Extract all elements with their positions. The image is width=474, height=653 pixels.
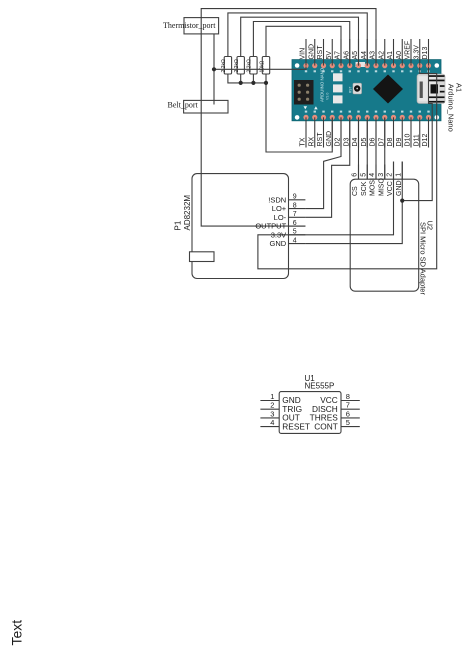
svg-text:D7: D7 — [378, 137, 385, 146]
svg-text:D2: D2 — [335, 137, 342, 146]
silkscreen pad numbers (dashes) — [305, 70, 430, 112]
wire resistor bottom bus — [228, 74, 266, 83]
wire D4 to U2 CS — [358, 118, 360, 179]
svg-text:D5: D5 — [361, 137, 368, 146]
pin stub AD8232M pin9 !SDN — [289, 199, 306, 201]
svg-text:2: 2 — [387, 173, 394, 177]
svg-text:NE555P: NE555P — [305, 382, 335, 391]
pin stub U1 pin6 — [341, 417, 360, 419]
resistor R2 body — [237, 57, 244, 75]
svg-text:10kΩ: 10kΩ — [259, 60, 265, 72]
svg-text:GND: GND — [270, 239, 287, 248]
svg-text:D12: D12 — [422, 134, 429, 147]
wire A5 to resistor R2 top — [241, 17, 359, 65]
svg-text:Arduino_Nano: Arduino_Nano — [447, 84, 456, 132]
wire D6 to U2 MOSI — [375, 118, 377, 179]
svg-text:D9: D9 — [396, 137, 403, 146]
svg-text:VIN: VIN — [300, 48, 307, 60]
svg-text:5V: 5V — [326, 51, 333, 60]
wire D5 to U2 SCK — [366, 118, 368, 179]
pin stub AD8232M pin5 — [289, 234, 306, 236]
svg-text:SCK: SCK — [361, 181, 368, 196]
svg-text:A7: A7 — [335, 51, 342, 60]
wire Arduino GND to resistor bus — [266, 83, 332, 152]
svg-text:1: 1 — [395, 173, 402, 177]
svg-text:VCC: VCC — [387, 181, 394, 196]
svg-text:7: 7 — [293, 211, 297, 218]
svg-text:ARDUINO NANO: ARDUINO NANO — [320, 67, 325, 102]
svg-text:9: 9 — [293, 194, 297, 201]
svg-text:3.3V: 3.3V — [413, 45, 420, 60]
wire U2 VCC to AD8232M 3.3V pin5 — [305, 162, 393, 235]
pin label lines Arduino bottom row — [306, 117, 429, 147]
pin stub U2 GND — [401, 162, 403, 180]
svg-text:5: 5 — [360, 173, 367, 177]
svg-text:RST: RST — [317, 132, 324, 147]
svg-text:D4: D4 — [352, 137, 359, 146]
svg-text:Belt_port: Belt_port — [168, 101, 199, 110]
svg-text:GND: GND — [308, 44, 315, 60]
reset button — [353, 83, 362, 94]
svg-text:2.2kΩ: 2.2kΩ — [234, 59, 240, 72]
pin stub U1 pin5 — [341, 426, 360, 428]
svg-text:Text: Text — [9, 620, 25, 646]
svg-text:CONT: CONT — [314, 421, 338, 431]
svg-text:7: 7 — [346, 401, 350, 410]
svg-text:D13: D13 — [422, 47, 429, 60]
wire R4 bottom lead — [265, 74, 267, 83]
svg-text:2.2kΩ: 2.2kΩ — [247, 59, 253, 72]
pin numbers U2 — [352, 173, 403, 177]
pin stub U1 pin7 — [341, 408, 360, 410]
pin labels U2 — [352, 178, 403, 196]
pin numbers AD8232M — [293, 194, 297, 245]
pin labels U1 right — [310, 395, 339, 431]
svg-text:A4: A4 — [361, 51, 368, 60]
svg-text:MOSI: MOSI — [370, 178, 377, 196]
pin stub U1 pin4 — [260, 426, 279, 428]
resistor R1 body — [224, 57, 231, 75]
svg-text:SPI Micro SD Adapter: SPI Micro SD Adapter — [419, 222, 428, 295]
wire A7 to resistor R4 top — [266, 26, 341, 65]
wire D2 to AD8232M LO+ pin8 — [305, 118, 341, 209]
svg-text:4: 4 — [270, 418, 274, 427]
pin stub U1 pin8 — [341, 400, 360, 402]
pin stub AD8232M pin4 — [289, 243, 306, 245]
svg-text:D10: D10 — [405, 134, 412, 147]
wire A3 to AD8232M OUTPUT pin6 — [201, 9, 376, 226]
svg-text:D8: D8 — [387, 137, 394, 146]
svg-text:P1: P1 — [173, 220, 182, 230]
svg-text:A2: A2 — [378, 51, 385, 60]
pin labels Arduino top row — [300, 41, 430, 60]
pin stub U2 MISO — [384, 165, 386, 180]
SMD parts — [333, 73, 343, 81]
pin stub U2 SCK — [366, 165, 368, 180]
wire D7 to U2 MISO — [384, 118, 386, 179]
svg-text:A6: A6 — [343, 51, 350, 60]
resistor R3 body — [250, 57, 257, 75]
wire R2 bottom lead — [240, 74, 242, 83]
svg-text:RST: RST — [317, 45, 324, 60]
svg-text:LO-: LO- — [274, 213, 287, 222]
junction dot R4 bottom — [264, 81, 268, 85]
resistor R4 body — [262, 57, 269, 75]
pin stub U2 MOSI — [375, 165, 377, 180]
svg-text:3: 3 — [270, 409, 274, 418]
ATmega chip (diamond) — [373, 75, 403, 104]
svg-text:RESET: RESET — [282, 421, 310, 431]
svg-text:3: 3 — [378, 173, 385, 177]
svg-text:VREF: VREF — [405, 41, 412, 60]
svg-text:A3: A3 — [370, 51, 377, 60]
wire U2 GND pin down to AD8232M GND pin4 — [305, 162, 402, 244]
svg-text:A5: A5 — [352, 51, 359, 60]
svg-text:6: 6 — [352, 173, 359, 177]
svg-text:!SDN: !SDN — [268, 195, 286, 204]
wire A4 to resistor R1 top — [228, 13, 367, 66]
wire 3.3V rail: Arduino 3.3V pad to U2/AD8232M — [258, 67, 437, 269]
wire R3 bottom lead — [252, 74, 254, 83]
pin stub U1 pin3 — [260, 417, 279, 419]
svg-text:CS: CS — [352, 186, 359, 196]
pin numbers U1 left — [270, 392, 274, 427]
adapter U2 SPI Micro SD box — [350, 179, 419, 291]
svg-text:3.3V: 3.3V — [271, 230, 286, 239]
svg-text:D3: D3 — [343, 137, 350, 146]
svg-text:1: 1 — [270, 392, 274, 401]
pads top row — [303, 63, 431, 68]
timer U1 NE555P box — [279, 392, 341, 434]
wire Thermistor_port pin to junction — [213, 34, 215, 69]
pin stub AD8232M pin6 — [289, 225, 306, 227]
svg-text:2.2kΩ: 2.2kΩ — [221, 59, 227, 72]
junction dot R2 bottom — [239, 81, 243, 85]
svg-text:4: 4 — [369, 173, 376, 177]
svg-text:A0: A0 — [396, 51, 403, 60]
wire A6 to resistor R3 top — [253, 22, 349, 66]
svg-text:5: 5 — [293, 229, 297, 236]
op Arduino Nano board graphic — [292, 60, 445, 121]
svg-text:RX: RX — [308, 136, 315, 146]
connector Belt_port box — [184, 100, 228, 113]
white triangles markers — [304, 106, 308, 109]
pin labels Arduino bottom row — [300, 131, 430, 147]
svg-text:LO+: LO+ — [272, 204, 287, 213]
mini USB connector — [417, 74, 445, 104]
pin stub AD8232M pin7 — [289, 216, 306, 218]
wire D13 to ground junction — [402, 67, 432, 201]
svg-text:Thermistor_port: Thermistor_port — [163, 21, 216, 30]
wire D3 to AD8232M LO- pin7 — [305, 118, 349, 217]
pin label lines Arduino top row — [306, 39, 429, 66]
svg-text:8: 8 — [293, 202, 297, 209]
Arduino Nano A1 PCB body — [292, 60, 441, 121]
pin stub U1 pin1 — [260, 400, 279, 402]
junction dot thermistor/belt/VIN — [212, 67, 216, 71]
pin labels AD8232M — [255, 195, 286, 248]
svg-text:AD8232M: AD8232M — [183, 195, 192, 231]
svg-text:GND: GND — [396, 180, 403, 196]
ICSP header — [294, 80, 314, 105]
svg-text:6: 6 — [346, 409, 350, 418]
pin labels U1 left — [282, 395, 310, 431]
svg-text:MISO: MISO — [378, 178, 385, 196]
pin stub AD8232M pin8 — [289, 208, 306, 210]
svg-text:TX: TX — [300, 137, 307, 146]
wire VIN to thermistor/belt junction — [214, 67, 306, 70]
pin stub U2 VCC — [393, 162, 395, 180]
svg-text:4: 4 — [293, 237, 297, 244]
svg-text:2: 2 — [270, 401, 274, 410]
op-amp module P1 AD8232M box — [192, 174, 289, 279]
pads bottom row — [303, 115, 431, 120]
svg-text:6: 6 — [293, 220, 297, 227]
svg-text:D11: D11 — [413, 134, 420, 146]
svg-text:5: 5 — [346, 418, 350, 427]
svg-text:GND: GND — [326, 131, 333, 147]
svg-text:A1: A1 — [387, 51, 394, 60]
junction dot R3 bottom — [251, 81, 255, 85]
svg-text:RST: RST — [349, 87, 353, 93]
svg-text:OUTPUT: OUTPUT — [255, 222, 286, 231]
pin stub U2 CS — [358, 165, 360, 180]
pin numbers U1 right — [346, 392, 350, 427]
svg-text:D6: D6 — [370, 137, 377, 146]
junction dot U2 GND net — [400, 199, 404, 203]
mounting holes — [295, 63, 300, 68]
P1 AD8232M connector tab — [190, 252, 215, 262]
svg-text:V3.0: V3.0 — [326, 93, 330, 100]
connector Thermistor_port box — [184, 18, 219, 34]
wire junction to Belt_port pin — [213, 69, 215, 104]
svg-text:8: 8 — [346, 392, 350, 401]
pin stub U1 pin2 — [260, 408, 279, 410]
